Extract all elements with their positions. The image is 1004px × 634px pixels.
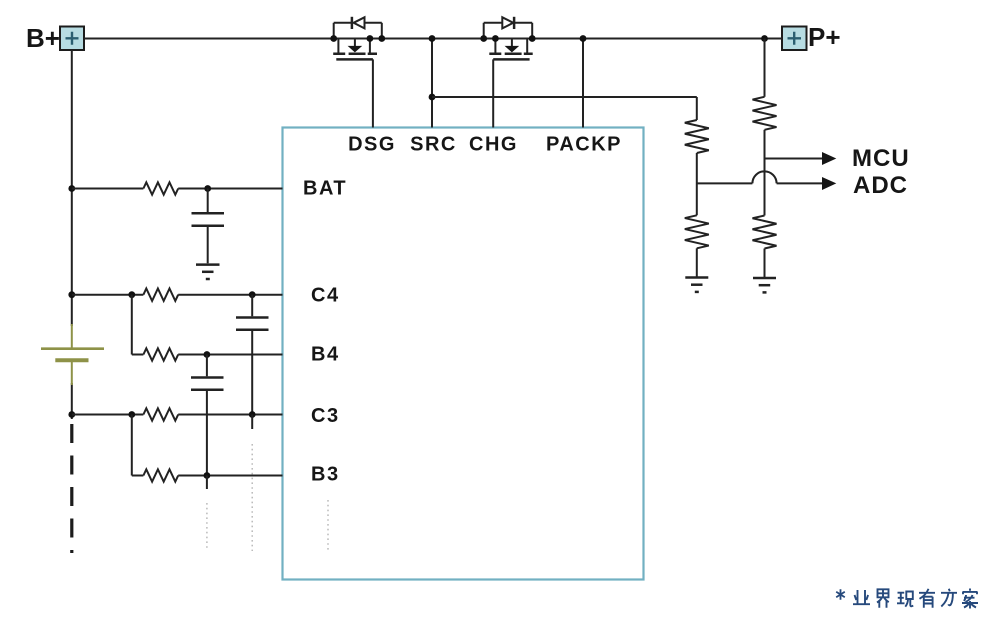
svg-text:B4: B4 <box>311 344 340 366</box>
footnote char xian <box>897 592 913 607</box>
node PACKP top <box>580 35 587 42</box>
wire MCU line <box>765 158 823 160</box>
wire C3 line left <box>72 414 144 416</box>
resistor R-B4 <box>143 348 178 360</box>
resistor R-div1-top <box>685 120 709 153</box>
footnote char you <box>919 589 935 608</box>
wire dashed rail continuation <box>70 424 73 553</box>
dotted continuation inside IC <box>327 500 329 551</box>
wire SRC to divider <box>432 96 697 98</box>
wire BAT line left <box>72 188 144 190</box>
wire B3 line <box>132 475 144 477</box>
arrow MCU <box>822 152 836 165</box>
svg-text:ADC: ADC <box>853 172 908 199</box>
wire DSG pin drop <box>372 59 374 127</box>
wire B4 line <box>132 354 144 356</box>
wire C4 line right <box>178 294 282 296</box>
wire divider1 lower <box>696 248 698 276</box>
svg-text:PACKP: PACKP <box>546 134 622 156</box>
ground GND2 <box>685 278 708 292</box>
resistor R-div2-top <box>753 97 777 130</box>
wire C3 line right <box>178 414 282 416</box>
wire top rail B+ to P+ <box>84 38 782 40</box>
node Q2 source a <box>480 35 487 42</box>
node C3-cap <box>249 411 256 418</box>
wire C4 line left <box>72 294 144 296</box>
wire divider2 upper <box>764 39 766 97</box>
resistor R-BAT <box>143 182 178 194</box>
IC U1 box <box>283 128 644 580</box>
wire left rail <box>71 50 73 326</box>
svg-text:DSG: DSG <box>348 134 396 156</box>
wire divider1 upper <box>696 97 698 120</box>
footnote char jie <box>877 589 889 607</box>
svg-text:C4: C4 <box>311 285 340 307</box>
node Q2 source b <box>492 35 499 42</box>
transistor Q1 DSG FET <box>333 17 382 60</box>
footnote char an <box>962 589 978 609</box>
footnote asterisk <box>836 589 845 599</box>
node SRC mid <box>429 94 436 101</box>
dotted continuation left <box>206 503 208 551</box>
node rail-BAT <box>68 185 75 192</box>
node B4-cap <box>204 351 211 358</box>
resistor R-div2-bot <box>753 216 777 249</box>
footnote char fang <box>941 589 957 607</box>
wire B3 drop <box>131 415 133 476</box>
resistor R-C4 <box>143 289 178 301</box>
terminal P+ <box>782 27 807 51</box>
resistor R-B3 <box>143 469 178 481</box>
node Q1 drain <box>330 35 337 42</box>
wire ADC hop <box>752 171 776 183</box>
footnote char ye <box>853 590 870 604</box>
transistor Q2 CHG FET <box>484 17 533 60</box>
svg-text:SRC: SRC <box>410 134 457 156</box>
wire divider1 mid <box>696 153 698 215</box>
capacitor C-BAT <box>192 189 225 264</box>
node Q2 drain <box>529 35 536 42</box>
node C4-branch <box>128 291 135 298</box>
wire BAT line right <box>178 188 282 190</box>
terminal B+ <box>60 27 84 51</box>
node SRC top <box>429 35 436 42</box>
node rail-C3 <box>68 411 75 418</box>
wire B3-cap stub <box>206 476 208 490</box>
capacitor C-C4C3 <box>236 295 269 415</box>
svg-text:C3: C3 <box>311 405 340 427</box>
svg-text:CHG: CHG <box>469 134 518 156</box>
wire ADC line left <box>697 182 753 184</box>
node P+ divider <box>761 35 768 42</box>
battery BT1 <box>41 324 104 385</box>
svg-text:P+: P+ <box>808 22 841 52</box>
node Q1 source a <box>367 35 374 42</box>
node rail-C4 <box>68 291 75 298</box>
wire divider2 lower <box>764 249 766 278</box>
capacitor C-B4B3 <box>191 355 224 476</box>
wire C3-cap stub <box>251 415 253 430</box>
wire divider2 mid <box>764 130 766 216</box>
ground GND1 <box>196 265 220 279</box>
svg-text:BAT: BAT <box>303 178 347 200</box>
svg-text:MCU: MCU <box>852 145 910 172</box>
wire SRC pin drop <box>431 39 433 128</box>
wire CHG pin drop <box>492 59 494 127</box>
dotted continuation mid <box>251 444 253 551</box>
node BAT-cap <box>204 185 211 192</box>
resistor R-div1-bot <box>685 215 709 248</box>
node C3-branch <box>128 411 135 418</box>
wire PACKP pin drop <box>582 39 584 128</box>
ground GND3 <box>753 278 776 292</box>
node B3-cap <box>204 472 211 479</box>
svg-text:B3: B3 <box>311 464 340 486</box>
wire ADC line right <box>777 182 823 184</box>
node Q1 source b <box>378 35 385 42</box>
svg-text:B+: B+ <box>26 23 60 53</box>
node C4-cap <box>249 291 256 298</box>
wire B4 drop <box>131 295 133 355</box>
arrow ADC <box>822 177 836 190</box>
resistor R-C3 <box>143 408 178 420</box>
